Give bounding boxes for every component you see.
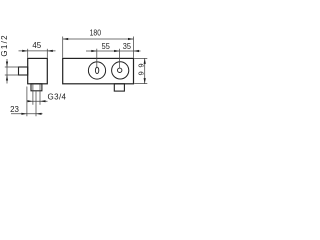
dimension 45 extension line left [27,49,29,58]
dimension 55 arrow left [91,50,97,52]
dimension G1/2 line [6,59,8,84]
dimension 55 arrow right [114,50,120,52]
left knob inner slot [95,67,98,73]
dimension 23 arrow left [21,113,27,115]
dimension 180 line [63,38,134,40]
side view outlet centerline extension [35,91,37,116]
dimension 180 arrow right [128,38,134,40]
dimension 45 arrow right [47,50,53,52]
dimension 23 arrow right [36,113,42,115]
dimension G1/2 extension line bottom [5,74,19,76]
dimension G3/4 line [28,100,48,102]
right knob outer circle [112,62,129,79]
dimension 23 line [11,113,43,115]
dimension G3/4 arrow left [27,100,33,102]
dimension 45 arrow left [22,50,28,52]
dimension G3/4 arrow right [40,100,46,102]
dimension 45 extension line right [46,49,48,58]
front view body rectangle [63,58,134,83]
dimension G1/2 extension line top [5,66,19,68]
svg-text:G3/4: G3/4 [48,92,67,101]
side view left face extension line [26,87,28,117]
dimension 180 extension line right [133,37,135,58]
right knob inner circle [118,68,122,72]
dimension 66 line [144,58,146,83]
dimension 180 extension line left [62,37,64,58]
svg-text:45: 45 [32,41,41,50]
dimension 45 line [19,50,56,52]
side view G3/4 outlet tab [31,84,42,91]
dimension 66 arrow top [144,58,146,64]
dimension 66 extension line bottom [134,83,147,85]
svg-text:35: 35 [123,42,132,51]
svg-text:180: 180 [90,28,102,37]
left knob outer circle [88,62,105,79]
right knob centerline extension [119,49,121,68]
dimension 180 arrow left [63,38,68,40]
side view thread line right [39,84,41,105]
svg-text:G1/2: G1/2 [0,35,9,57]
svg-text:23: 23 [10,105,19,114]
front view outlet tab [114,84,124,91]
dimension 55/35 line [86,50,141,52]
left knob centerline extension [96,49,98,67]
dimension G1/2 arrow bottom [6,75,8,81]
dimension 66 arrow bottom [144,78,146,84]
dimension G1/2 arrow top [6,62,8,68]
dimension 66 extension line top [134,57,147,59]
dimension 35 arrow outside [134,50,140,52]
side view G1/2 inlet nub [19,67,28,75]
side view body square [28,58,48,83]
svg-text:55: 55 [102,42,111,51]
side view thread line left [32,84,34,105]
